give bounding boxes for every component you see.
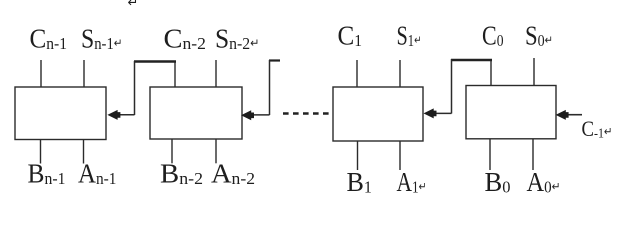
- svg-text:C0: C0: [482, 20, 504, 51]
- full adder FA0 (box 0): [466, 86, 556, 139]
- arrowhead into FA1 right side: [424, 108, 437, 118]
- svg-text:S0↵: S0↵: [525, 20, 553, 51]
- svg-text:S1↵: S1↵: [397, 20, 422, 51]
- arrowhead into FA0 right side: [556, 110, 569, 120]
- wire B0 input pin: [489, 139, 491, 170]
- arrowhead into FA2 right side: [241, 110, 254, 120]
- full adder FA2 (box n-2): [150, 87, 242, 139]
- svg-text:Bn-1: Bn-1: [28, 158, 66, 189]
- full adder FA3 (box n-1): [15, 87, 106, 140]
- wire carry C0 to FA1: top horizontal: [451, 59, 492, 62]
- wire carry-in C-1 into FA0: [567, 114, 582, 116]
- wire S0 output pin: [533, 58, 535, 86]
- svg-text:Sn-1↵: Sn-1↵: [81, 23, 122, 54]
- svg-text:An-2: An-2: [211, 158, 255, 189]
- wire carry from omitted stage to FA2: top stub: [269, 59, 280, 61]
- svg-text:C-1↵: C-1↵: [582, 116, 613, 142]
- wire carry to FA2: vertical drop: [269, 60, 271, 115]
- wire carry to FA2: horizontal into arrow: [253, 114, 270, 116]
- wire Sn-1 output pin: [83, 60, 85, 87]
- svg-text:A0↵: A0↵: [527, 166, 561, 197]
- wire An-2 input pin: [215, 139, 217, 163]
- wire carry Cn-2 to FA3: horizontal into arrow: [118, 114, 135, 116]
- wire A1 input pin: [399, 141, 401, 170]
- svg-text:Cn-2: Cn-2: [164, 23, 207, 54]
- wire C1 output pin: [356, 60, 358, 87]
- wire Bn-1 input pin: [40, 140, 42, 164]
- wire Bn-2 input pin: [171, 139, 173, 163]
- svg-text:Sn-2↵: Sn-2↵: [215, 23, 260, 54]
- svg-text:↵: ↵: [128, 0, 139, 10]
- wire Sn-2 output pin: [215, 60, 217, 87]
- svg-text:A1↵: A1↵: [397, 166, 427, 197]
- wire Cn-2 output pin: [174, 62, 176, 87]
- svg-text:B0: B0: [485, 166, 511, 197]
- wire A0 input pin: [532, 139, 534, 170]
- dashed wire (omitted stages): [283, 112, 329, 114]
- svg-text:B1: B1: [347, 166, 373, 197]
- wire B1 input pin: [357, 141, 359, 170]
- arrowhead into FA3 right side: [107, 110, 120, 120]
- svg-text:Cn-1: Cn-1: [30, 23, 68, 54]
- wire carry C0 to FA1: horizontal into arrow: [435, 112, 452, 114]
- wire An-1 input pin: [83, 140, 85, 164]
- svg-text:Bn-2: Bn-2: [160, 158, 203, 189]
- wire carry C0 to FA1: vertical drop: [451, 59, 453, 114]
- full adder FA1 (box 1): [333, 87, 423, 141]
- wire carry Cn-2 to FA3: top horizontal: [134, 60, 176, 63]
- wire Cn-1 output pin: [40, 60, 42, 87]
- svg-text:C1: C1: [338, 20, 362, 51]
- wire C0 output pin: [490, 61, 492, 86]
- wire carry Cn-2 to FA3: vertical drop: [134, 61, 136, 115]
- wire S1 output pin: [399, 60, 401, 87]
- svg-text:An-1: An-1: [78, 158, 117, 189]
